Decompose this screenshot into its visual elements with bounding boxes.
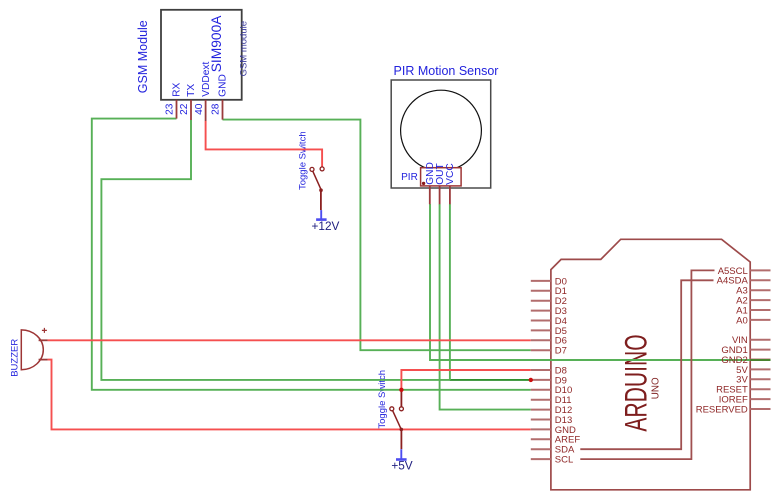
Arduino pin label D7 [555,346,567,357]
PIR pin label GND [425,162,436,185]
Arduino pin label SCL [555,455,573,466]
wire junction to SW2 top contact - dark red [400,390,402,407]
Arduino pin leg RESERVED [750,408,770,410]
Arduino pin leg 5V [750,368,770,370]
buzzer pin leg minus [39,359,48,361]
Arduino pin label 3V [736,375,748,386]
svg-text:+12V: +12V [312,219,340,233]
toggle switch SW2 label "Toggle Switch" [377,370,388,429]
Arduino title "ARDUINO" [618,334,653,431]
+12V power symbol [316,210,327,220]
svg-text:BUZZER: BUZZER [10,339,21,377]
GSM pin label RX [172,82,183,96]
Arduino pin label A5SCL [718,266,748,277]
svg-text:PIR: PIR [401,172,418,183]
toggle switch SW1 lever [312,169,321,190]
GSM pin number 23 [165,103,176,115]
Arduino pin label A0 [736,315,748,326]
GSM pin number 22 [179,103,190,115]
Arduino pin leg D4 [531,320,551,322]
wire SW1 lever to +12V - dark red [320,190,322,210]
svg-text:23: 23 [165,103,176,115]
svg-text:40: 40 [194,103,205,115]
GSM pin label GND [218,74,229,97]
wire Arduino SDA to A4SDA - internal [580,280,713,449]
Arduino pin label A3 [736,286,748,297]
Arduino pin leg D13 [531,419,551,421]
buzzer pin leg plus [39,339,48,341]
svg-text:UNO: UNO [651,377,662,399]
toggle switch SW1 right contact [320,167,324,171]
Arduino pin leg D2 [531,300,551,302]
Arduino pin label VIN [732,335,748,346]
Arduino pin label D8 [555,365,567,376]
Arduino pin leg AREF [531,438,551,440]
Arduino pin label D1 [555,286,567,297]
Arduino pin leg D6 [531,339,551,341]
svg-text:+5V: +5V [391,459,412,473]
Arduino pin leg D8 [531,369,551,371]
svg-text:ARDUINO: ARDUINO [618,334,653,431]
toggle switch SW1 left contact [310,167,314,171]
Arduino pin label IOREF [719,395,748,406]
PIR pin1 marker dot [422,182,425,185]
Arduino pin leg D5 [531,329,551,331]
Arduino pin leg VIN [750,339,770,341]
GSM pin label TX [186,84,197,97]
Arduino pin leg D3 [531,310,551,312]
Arduino pin leg A3 [750,289,770,291]
wire PIR GND to Arduino GND2 - green [430,204,750,360]
Arduino pin label D12 [555,405,572,416]
GSM pin leg 40 VDDext [205,100,207,121]
wire PIR VCC to D9 node - green [449,204,451,380]
toggle switch SW2 left contact [390,407,394,411]
junction node at SW2 top [399,388,403,392]
Arduino pin label AREF [555,435,581,446]
wire GSM RX(23) to Arduino D10 - green [92,119,531,390]
Arduino pin leg GND2 [750,359,770,361]
GSM pin leg 23 RX [176,100,178,119]
PIR sensor box U2 [391,80,491,188]
Arduino pin label A4SDA [717,276,749,287]
PIR pin label OUT [435,163,446,185]
svg-text:VDDext: VDDext [201,62,212,97]
GSM part name "SIM900A" [209,15,224,73]
Arduino pin label GND1 [721,345,747,356]
Arduino pin leg D10 [531,389,551,391]
GSM pin number 40 [194,103,205,115]
Arduino pin label A1 [736,305,748,316]
Arduino pin leg GND1 [750,349,770,351]
Arduino pin label D9 [555,375,567,386]
Arduino pin leg A0 [750,319,770,321]
Arduino pin label D13 [555,415,572,426]
Arduino pin label D0 [555,276,567,287]
toggle switch SW1 label "Toggle Switch" [297,131,308,190]
wire buzzer minus to Arduino GND - red [48,360,531,430]
Arduino pin label D3 [555,306,567,317]
Arduino pin leg SDA [531,448,551,450]
Arduino pin leg D9 [531,379,551,381]
Arduino pin leg A5SCL [750,269,770,271]
Arduino pin label RESET [716,385,748,396]
IC U3 Arduino UNO board outline [551,239,750,489]
svg-text:GND: GND [218,74,229,97]
wire Arduino SCL to A5SCL - internal [580,270,714,459]
wire SW2 lever to +5V - dark red [400,429,402,449]
power label "+12V" [312,219,340,233]
wire PIR OUT to Arduino D12 - green [440,204,531,410]
GSM pin leg 28 GND [222,100,224,120]
junction node at D9 pin [529,378,533,382]
Arduino pin leg RESET [750,388,770,390]
Arduino pin leg A2 [750,299,770,301]
Arduino subtitle "UNO" [651,377,662,399]
svg-text:Toggle Switch: Toggle Switch [297,131,308,190]
GSM module box U1 SIM900A [161,10,242,100]
Arduino pin label 5V [736,365,748,376]
Arduino pin label GND2 [721,355,747,366]
Arduino pin leg A4SDA [750,279,770,281]
Arduino pin label D2 [555,296,567,307]
PIR pin leg OUT [439,186,441,204]
GSM pin number 28 [211,103,222,115]
PIR sensor dome circle [401,90,482,171]
svg-text:RX: RX [172,82,183,96]
Arduino pin label GND [555,425,576,436]
toggle switch SW2 lever [392,409,401,430]
Arduino pin label D4 [555,316,567,327]
svg-text:VCC: VCC [445,163,456,185]
svg-text:SCL: SCL [555,455,573,466]
Arduino pin leg IOREF [750,398,770,400]
PIR pin leg VCC [449,186,451,204]
PIR pin leg GND [429,186,431,204]
PIR pin header box [421,168,462,186]
Arduino pin leg D11 [531,399,551,401]
svg-text:TX: TX [186,84,197,97]
svg-text:22: 22 [179,103,190,115]
wire Arduino D8 to SW2 junction - red [401,370,530,390]
svg-text:28: 28 [211,103,222,115]
Arduino pin label D10 [555,385,572,396]
GSM sublabel "GSM module" [239,21,250,76]
GSM pin label VDDext [201,62,212,97]
svg-text:PIR Motion Sensor: PIR Motion Sensor [394,64,499,78]
buzzer label "BUZZER" [10,339,21,377]
Arduino pin leg A1 [750,309,770,311]
wire GSM GND(28) to Arduino D7 - green [223,120,531,351]
wire node to Arduino D9 - dark green [450,379,530,381]
GSM module label "GSM Module" [136,20,150,93]
svg-text:GSM module: GSM module [239,21,250,76]
buzzer LS1 body [21,330,43,370]
power label "+5V" [391,459,412,473]
Arduino pin leg D1 [531,290,551,292]
Arduino pin label SDA [555,445,575,456]
toggle switch SW2 right contact [399,407,403,411]
Arduino pin label D6 [555,336,567,347]
+5V power symbol [396,449,407,459]
wire buzzer plus to Arduino D6 - red [48,339,531,341]
Arduino pin leg D12 [531,409,551,411]
svg-text:D7: D7 [555,346,567,357]
Arduino pin leg D7 [531,349,551,351]
svg-text:A0: A0 [736,315,748,326]
toggle switch SW1 lever end dot [319,188,323,192]
Arduino pin label RESERVED [696,404,748,415]
svg-text:Toggle Switch: Toggle Switch [377,370,388,429]
wire GSM VDDext(40) to SW1 - red [206,121,323,167]
Arduino pin leg SCL [531,458,551,460]
wire GSM TX(22) to D9 node - green [101,120,449,380]
svg-text:RESERVED: RESERVED [696,404,748,415]
buzzer plus mark [42,328,47,333]
svg-text:GSM Module: GSM Module [136,20,150,93]
Arduino pin label D5 [555,326,567,337]
Arduino pin label A2 [736,296,748,307]
Arduino pin leg 3V [750,378,770,380]
GSM pin leg 22 TX [190,100,192,120]
wire GND2 over right pin leg - dark green [750,359,770,361]
Arduino pin label D11 [555,395,572,406]
Arduino pin leg D0 [531,280,551,282]
PIR label "PIR" [401,172,418,183]
PIR pin label VCC [445,163,456,185]
toggle switch SW2 lever end dot [400,428,404,432]
PIR title "PIR Motion Sensor" [394,64,499,78]
Arduino pin leg GND [531,428,551,430]
